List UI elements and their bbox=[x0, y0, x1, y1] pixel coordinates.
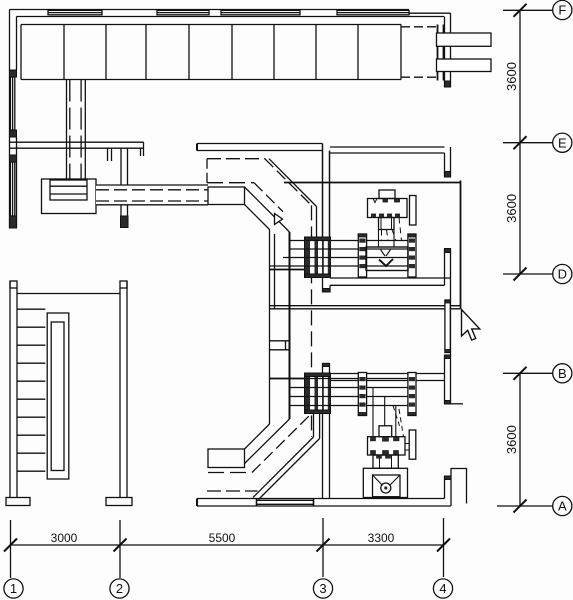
tick grid 4 bbox=[437, 539, 450, 552]
conveyor horizontal from M1 to transfer box (crosses grid-2 column) bbox=[96, 185, 208, 205]
wall left outer (west wall of upper wing) bbox=[10, 10, 17, 229]
U-loop outer guard vertical top bbox=[316, 207, 318, 238]
U-loop dashed inner line bottom arm bbox=[208, 472, 252, 474]
wall grid 3 stub above room2 wall bbox=[323, 363, 330, 373]
wall stub bottom right corner (x 444.5-451, y 476-506) bbox=[445, 476, 452, 506]
U-loop dashed outer vertical east boundary bbox=[311, 205, 313, 437]
conveyor diagonal left rail to B2 bbox=[245, 424, 270, 449]
stair wall foot right bbox=[106, 498, 132, 506]
press machine P1 leg frame bbox=[379, 218, 395, 230]
conveyor diagonal B1 to left rail bbox=[245, 205, 270, 230]
wall room1 top (y 180.5-185) bbox=[284, 182, 461, 184]
conveyor vertical from cell row to machine M1 bbox=[67, 80, 86, 180]
grid stub A bbox=[497, 505, 553, 507]
grid stub E bbox=[503, 142, 553, 144]
press machine P2 side bar east bbox=[409, 430, 416, 459]
stair wall left (x 10-17) bbox=[10, 281, 17, 498]
grid stub D bbox=[503, 273, 553, 275]
roller tie column room2 right bbox=[408, 373, 416, 416]
U-loop dashed inner diagonal top bbox=[254, 183, 283, 212]
column bottom right (x 451-466.5, y 468.5-503.5) bbox=[451, 469, 467, 504]
wall grid 3 lower segment bbox=[323, 414, 330, 499]
grid bubble 4 bbox=[433, 579, 452, 598]
press machine P1 body bbox=[368, 199, 408, 218]
dimension line right vertical lower (B to A) bbox=[519, 373, 521, 506]
press machine P1 room1: head box bbox=[379, 190, 395, 199]
U-loop dashed diagonal top corner bbox=[265, 159, 312, 206]
grid bubble A bbox=[553, 496, 572, 515]
press machine P2 body bbox=[368, 437, 410, 455]
grid bubble 1 bbox=[4, 579, 23, 598]
stair handrail outer bbox=[47, 313, 69, 479]
conveyor rail left vertical bbox=[269, 230, 271, 425]
roller tie column room1 left bbox=[358, 234, 366, 277]
extension line grid 1 bbox=[10, 520, 12, 578]
wall room2 top (y 373.5-380.5) bbox=[330, 374, 445, 381]
arrow head flow direction top corner bbox=[275, 214, 283, 225]
wall right outer (x 460.5, y 183-308.5) bbox=[460, 181, 462, 309]
grid stub B bbox=[503, 372, 553, 374]
svg-text:3600: 3600 bbox=[504, 62, 519, 91]
machine E1 dashed outline (equipment at NE corner of cell row) bbox=[401, 27, 438, 77]
carriage box on rails bbox=[270, 341, 290, 350]
grid bubble D bbox=[553, 264, 572, 283]
grid stub F bbox=[503, 9, 553, 11]
door leaf on east wall bbox=[445, 300, 450, 353]
transfer box B1 (top of U-loop) bbox=[208, 187, 245, 205]
press machine P1 side bar east bbox=[410, 196, 417, 226]
dimension line right vertical upper (F to D) bbox=[519, 10, 521, 274]
grid bubble 3 bbox=[313, 579, 332, 598]
svg-text:A: A bbox=[558, 499, 567, 514]
wall crossing box in bottom wall (conveyor pass-through) bbox=[257, 499, 314, 507]
press machine P2 dashed drop lines from rollers bbox=[393, 406, 404, 437]
machine E1 frame bbox=[438, 25, 444, 81]
window W4 top wall bbox=[337, 10, 409, 14]
extension line grid 3 bbox=[322, 518, 324, 577]
wall column at grid 2 (x~121-127) bbox=[121, 148, 129, 227]
conveyor diagonal right rail to B2 bbox=[245, 419, 290, 464]
transfer box B2 (bottom of U-loop) bbox=[208, 449, 245, 468]
U-loop outer guard verticals bottom bbox=[314, 414, 320, 439]
tick F bbox=[514, 4, 527, 17]
svg-text:5500: 5500 bbox=[209, 531, 236, 545]
U-loop outer solid diagonal bottom corner bbox=[253, 437, 314, 498]
window W7 left wall bbox=[10, 162, 14, 216]
conveyor rung upper bbox=[270, 269, 331, 271]
wall interior band west section (y~142-148) bbox=[10, 142, 144, 161]
wall internal grid 4 lower (x 444.5-450.5, y 355-404) bbox=[445, 355, 464, 404]
window W6 left wall bbox=[10, 77, 14, 130]
stair treads bbox=[17, 309, 45, 471]
machine M1 (packing machine, west wing) bbox=[42, 179, 97, 214]
svg-text:1: 1 bbox=[10, 581, 17, 596]
grid bubble 2 bbox=[110, 579, 129, 598]
svg-text:3000: 3000 bbox=[51, 531, 78, 545]
wall internal grid 4 (x 444.5-450.5, y 248-283) bbox=[445, 249, 451, 405]
stair handrail inner bbox=[51, 322, 64, 471]
U-loop outer solid diagonal bottom corner second bbox=[259, 439, 320, 500]
svg-text:E: E bbox=[558, 135, 567, 150]
conveyor diagonal B1 to right rail bbox=[245, 187, 290, 232]
svg-text:D: D bbox=[558, 267, 567, 282]
U-loop dashed inner diagonal bottom bbox=[252, 414, 312, 473]
wall right end (east wall of upper wing) bbox=[445, 13, 451, 87]
wall top outer (north wall of upper wing) bbox=[10, 10, 451, 17]
svg-text:3600: 3600 bbox=[504, 425, 519, 454]
press machine P2 base box with V-chute and drain circle bbox=[363, 468, 407, 497]
dimension line bottom horizontal bbox=[11, 544, 444, 546]
extension line grid 4 bbox=[443, 518, 445, 577]
wall complex bottom (y 498.5-506) bbox=[197, 499, 451, 507]
svg-text:3300: 3300 bbox=[368, 531, 395, 545]
mouse cursor bbox=[462, 310, 480, 341]
press machine P2 solid drop lines from rollers bbox=[373, 388, 396, 437]
press machine P1 dashed drop lines to rollers bbox=[382, 218, 402, 241]
svg-text:B: B bbox=[558, 366, 567, 381]
svg-text:3600: 3600 bbox=[504, 194, 519, 223]
roller conveyor room2 lines bbox=[270, 379, 417, 406]
press bed box room1 rollers bbox=[366, 247, 408, 271]
svg-text:F: F bbox=[558, 3, 566, 18]
roller tie column room2 left bbox=[358, 373, 366, 416]
press machine P2 neck box bbox=[379, 426, 392, 437]
svg-text:4: 4 bbox=[439, 581, 446, 596]
U-loop dashed outer boundary top arm bbox=[207, 158, 265, 160]
cabinet row (cells along north wall) bbox=[21, 25, 401, 80]
tick grid 3 bbox=[317, 539, 330, 552]
machine E1 bar 1 (protruding east) bbox=[437, 33, 492, 46]
window W2 top wall bbox=[157, 10, 209, 14]
svg-text:2: 2 bbox=[116, 581, 123, 596]
crossing box X2 (wall penetration room2) bbox=[305, 373, 331, 414]
stair wall right (x 120-127) bbox=[120, 281, 127, 498]
svg-text:3: 3 bbox=[319, 581, 326, 596]
grid bubble F bbox=[553, 0, 572, 19]
window W1 top wall bbox=[48, 10, 102, 14]
conveyor rail right vertical bbox=[289, 232, 291, 419]
grid bubble B bbox=[553, 364, 572, 383]
corridor track line pair to door bbox=[270, 306, 461, 309]
crossing box X1 (wall penetration room1) bbox=[305, 237, 331, 278]
wall stub at grid 4 upper (x 444.5-450.5, y 153-177) bbox=[445, 147, 451, 177]
machine E1 bar 2 (protruding east) bbox=[437, 59, 492, 72]
U-loop dashed boundary left end tick bbox=[206, 159, 208, 184]
stair wall foot left bbox=[6, 498, 30, 506]
roller conveyor room1 lines bbox=[270, 241, 417, 267]
window W3 top wall bbox=[221, 10, 300, 14]
tick E bbox=[514, 136, 527, 149]
tick D bbox=[514, 268, 527, 281]
stair top landing line bbox=[17, 293, 120, 295]
conveyor rung lower bbox=[270, 378, 331, 380]
grid bubble E bbox=[553, 133, 572, 152]
U-loop dashed outer bottom arm bbox=[207, 490, 258, 492]
extension line grid 2 bbox=[119, 520, 121, 578]
press machine P2 leg frame bbox=[373, 455, 398, 468]
tick A bbox=[514, 500, 527, 513]
wall room1 bottom (y 278-283) bbox=[323, 278, 451, 292]
U-loop dashed inner line top arm bbox=[207, 182, 254, 184]
U-loop outer solid diagonal top corner bbox=[269, 159, 317, 207]
conveyor rail left inner vertical bbox=[274, 234, 276, 309]
wall complex top east section (y 147-153) bbox=[330, 147, 445, 153]
wall complex top west section (y 143.5-150.5) bbox=[197, 144, 323, 151]
wall pier blocks left wall bbox=[10, 70, 17, 228]
wall grid 3 upper segment (x 322.5-330) bbox=[323, 144, 330, 238]
tick grid 1 bbox=[4, 539, 17, 552]
tick B bbox=[514, 367, 527, 380]
tick grid 2 bbox=[114, 539, 127, 552]
roller tie column room1 right bbox=[408, 234, 416, 277]
